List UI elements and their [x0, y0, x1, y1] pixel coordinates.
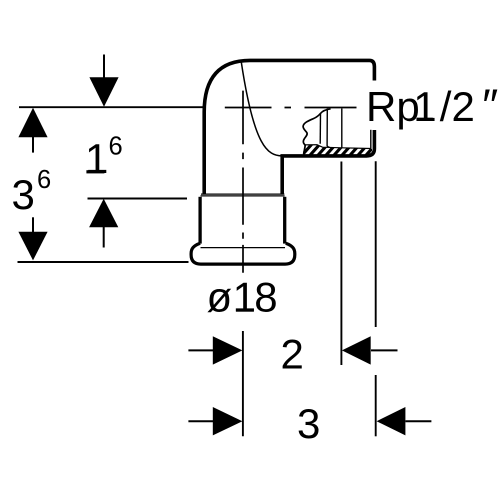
svg-text:2: 2: [281, 330, 304, 377]
svg-text:1: 1: [85, 135, 108, 182]
svg-text:3: 3: [12, 171, 35, 218]
svg-text:6: 6: [37, 166, 51, 194]
svg-text:3: 3: [297, 400, 320, 447]
svg-text:6: 6: [109, 133, 123, 161]
svg-text:ø18: ø18: [207, 274, 278, 321]
